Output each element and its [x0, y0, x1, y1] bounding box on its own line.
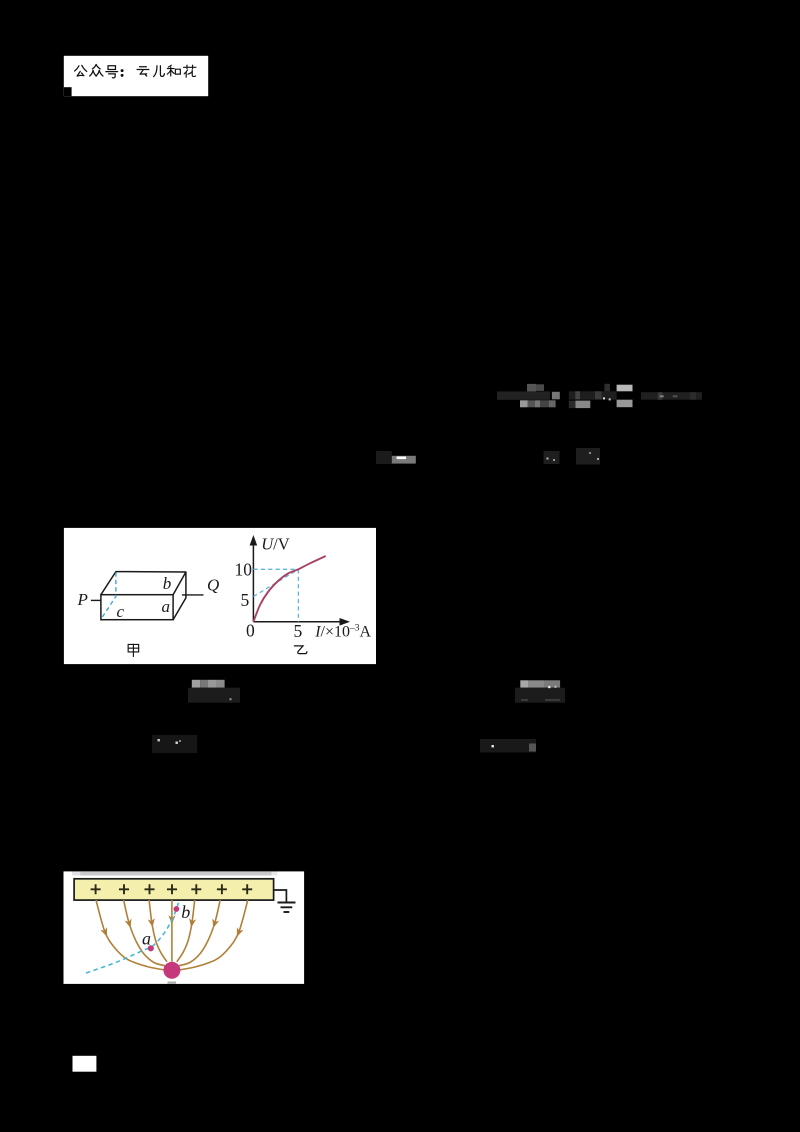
lead line Q [182, 594, 204, 596]
charged plate [74, 879, 274, 900]
cuboid top/right edges [101, 572, 186, 620]
highlighted fragment left [192, 680, 200, 688]
field line 2 [124, 900, 165, 966]
white block bottom-left [73, 1056, 97, 1072]
point b dot [174, 906, 180, 912]
arrowhead 4 [168, 915, 175, 924]
arrowhead 1 [100, 927, 110, 938]
svg-text:10: 10 [235, 560, 253, 580]
formula fragment cluster 1 [497, 391, 550, 399]
field line 7 [180, 900, 247, 970]
svg-text:5: 5 [241, 590, 250, 610]
faint fragment right [480, 739, 536, 753]
dashed guide at I=5 [297, 569, 299, 622]
x-axis arrowhead [340, 618, 351, 626]
dashed guide at U=10 [253, 568, 298, 570]
arrowhead 2 [125, 919, 134, 930]
plus signs [91, 884, 253, 894]
arrowhead 3 [148, 918, 157, 928]
figure 2 white panel [64, 871, 305, 984]
svg-text:b: b [163, 574, 172, 593]
cuboid front face [101, 595, 173, 620]
svg-text:I/×10–3A: I/×10–3A [314, 623, 371, 640]
faint answer blank right [544, 451, 560, 464]
arrowheads on field lines [100, 915, 243, 938]
figure 1 white panel [64, 528, 376, 664]
field line 5 [177, 900, 195, 962]
formula fragment cluster 2 [569, 391, 617, 399]
title text 公众号：云儿和花 [75, 65, 196, 78]
svg-text:Q: Q [207, 576, 219, 595]
svg-text:b: b [181, 902, 190, 922]
y-axis arrowhead [250, 535, 258, 546]
label 乙 [294, 646, 307, 654]
svg-text:0: 0 [246, 621, 255, 641]
field line 6 [179, 900, 220, 966]
svg-text:a: a [142, 929, 151, 949]
graph x-axis [253, 621, 343, 623]
cuboid hidden edges (dashed cyan) [101, 573, 116, 620]
arrowhead 7 [234, 927, 244, 938]
faint answer blank left [376, 451, 392, 464]
arrowhead 6 [210, 919, 219, 930]
point a dot [148, 945, 154, 951]
charged ball [163, 962, 180, 979]
svg-text:U/V: U/V [261, 534, 290, 553]
ground wire [274, 890, 287, 903]
faint fragment left [152, 735, 197, 753]
U-I curve [253, 556, 325, 622]
gray strip above plate [72, 872, 277, 876]
svg-text:c: c [117, 602, 125, 621]
field line 1 [96, 900, 163, 970]
ground symbol [278, 903, 296, 913]
white title box [64, 56, 208, 96]
formula fragment cluster 3 [641, 392, 702, 400]
arrowhead 5 [188, 918, 197, 928]
field line 4 (center) [171, 900, 173, 962]
graph y-axis [252, 542, 254, 622]
dashed equipotential curve [86, 902, 179, 973]
svg-text:5: 5 [294, 621, 303, 641]
highlighted fragment right [520, 680, 528, 687]
field line 3 [149, 900, 167, 962]
notch (black corner cut) [64, 87, 72, 96]
lead line P [91, 599, 101, 601]
dashed tangent line [253, 569, 298, 596]
svg-text:a: a [162, 597, 171, 616]
field lines [96, 900, 248, 970]
gray mark at bottom edge [168, 982, 177, 984]
label 甲 [128, 644, 139, 656]
svg-text:P: P [77, 590, 88, 609]
